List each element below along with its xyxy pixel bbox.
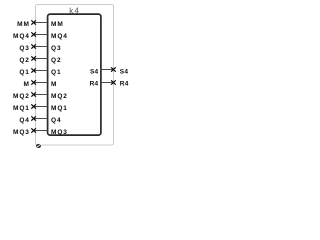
svg-text:MQ4: MQ4	[51, 33, 68, 40]
svg-text:M: M	[23, 81, 29, 88]
svg-text:Q1: Q1	[51, 69, 61, 76]
svg-text:MQ1: MQ1	[51, 105, 68, 112]
subcircuit body U:K4	[48, 14, 101, 135]
no-connect X pin Q3	[31, 44, 36, 48]
no-connect X pin S4	[111, 67, 116, 71]
component bounding box (selection outline)	[36, 5, 114, 146]
no-connect X pin Q2	[31, 56, 36, 60]
no-connect X pin R4	[111, 80, 116, 84]
svg-text:MQ4: MQ4	[13, 33, 30, 40]
wire pin Q4	[34, 118, 48, 120]
svg-text:MQ2: MQ2	[51, 93, 68, 100]
wire pin MQ4	[34, 34, 48, 36]
svg-text:MM: MM	[51, 21, 64, 28]
svg-text:MQ3: MQ3	[13, 129, 30, 136]
no-connect X pin M	[31, 80, 36, 84]
svg-text:Q1: Q1	[19, 69, 29, 76]
anchor marker at bounding-box corner	[36, 144, 41, 148]
wire pin Q1	[34, 70, 48, 72]
wire pin S4	[101, 69, 114, 71]
wire pin R4	[101, 82, 114, 84]
svg-text:Q3: Q3	[19, 45, 29, 52]
no-connect X pin MM	[31, 20, 36, 24]
wire pin MQ1	[34, 106, 48, 108]
wire pin MM	[34, 22, 48, 24]
svg-text:MM: MM	[17, 21, 30, 28]
svg-text:Q3: Q3	[51, 45, 61, 52]
wire pin MQ2	[34, 94, 48, 96]
wire pin Q3	[34, 46, 48, 48]
svg-text:Q2: Q2	[51, 57, 61, 64]
no-connect X pin MQ2	[31, 92, 36, 96]
svg-text:S4: S4	[120, 68, 129, 75]
svg-text:Q4: Q4	[51, 117, 61, 124]
no-connect X pin MQ4	[31, 32, 36, 36]
svg-text:MQ1: MQ1	[13, 105, 30, 112]
svg-text:M: M	[51, 81, 57, 88]
wire pin Q2	[34, 58, 48, 60]
svg-text:R4: R4	[90, 80, 99, 87]
svg-text:MQ3: MQ3	[51, 129, 68, 136]
wire pin MQ3	[34, 130, 48, 132]
wire pin M	[34, 82, 48, 84]
no-connect X pin MQ1	[31, 104, 36, 108]
svg-text:Q2: Q2	[19, 57, 29, 64]
no-connect X pin Q1	[31, 68, 36, 72]
svg-text:Q4: Q4	[19, 117, 29, 124]
svg-text:R4: R4	[120, 80, 129, 87]
no-connect X pin MQ3	[31, 128, 36, 132]
svg-text:S4: S4	[90, 68, 99, 75]
no-connect X pin Q4	[31, 116, 36, 120]
svg-text:MQ2: MQ2	[13, 93, 30, 100]
